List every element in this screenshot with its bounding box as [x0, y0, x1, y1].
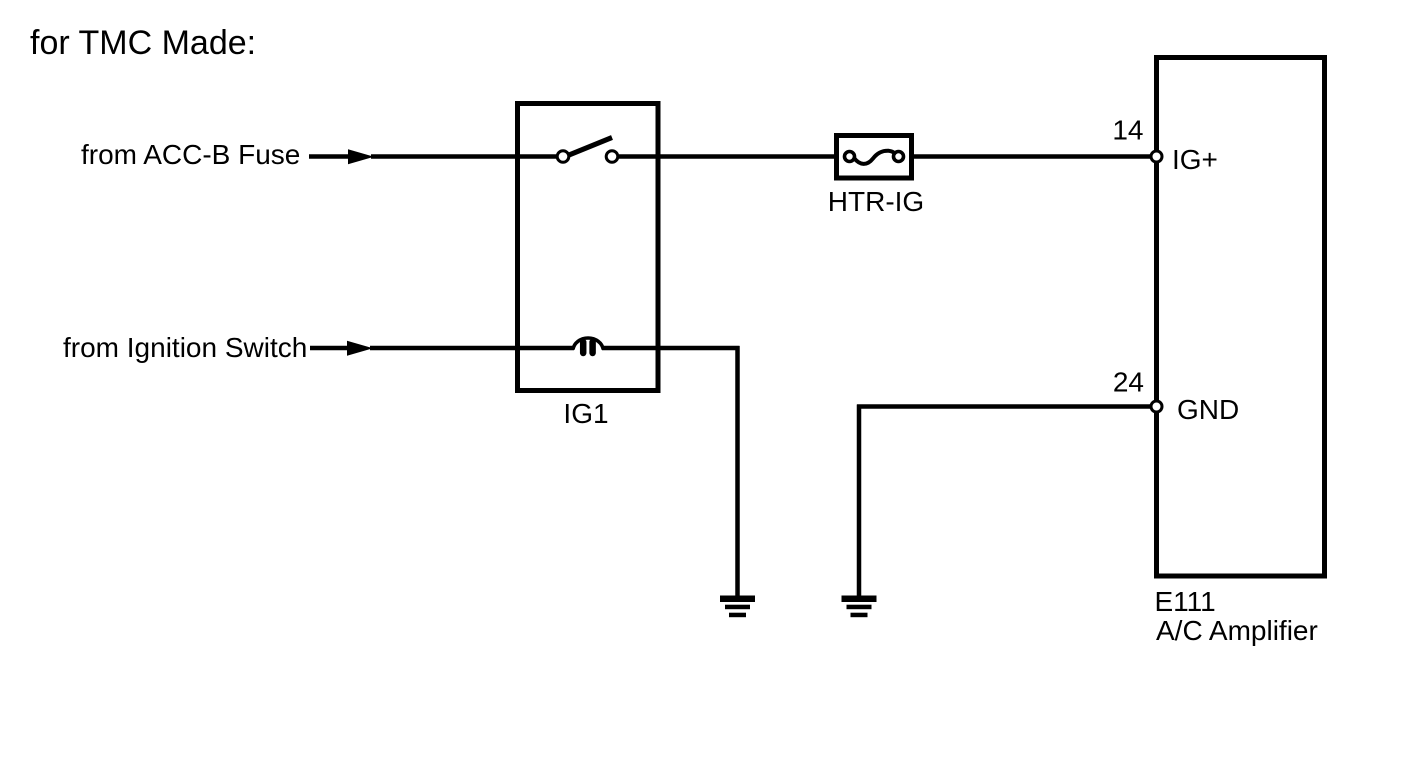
- svg-text:IG1: IG1: [563, 398, 608, 429]
- svg-text:E111: E111: [1155, 586, 1216, 617]
- svg-text:for TMC Made:: for TMC Made:: [30, 24, 256, 62]
- svg-text:14: 14: [1112, 115, 1143, 146]
- svg-text:HTR-IG: HTR-IG: [828, 186, 924, 217]
- svg-text:GND: GND: [1177, 394, 1239, 425]
- svg-text:A/C Amplifier: A/C Amplifier: [1156, 615, 1318, 646]
- svg-text:from ACC-B Fuse: from ACC-B Fuse: [81, 139, 300, 170]
- svg-text:IG+: IG+: [1172, 144, 1218, 175]
- svg-text:24: 24: [1113, 367, 1144, 398]
- svg-text:from Ignition Switch: from Ignition Switch: [63, 332, 307, 363]
